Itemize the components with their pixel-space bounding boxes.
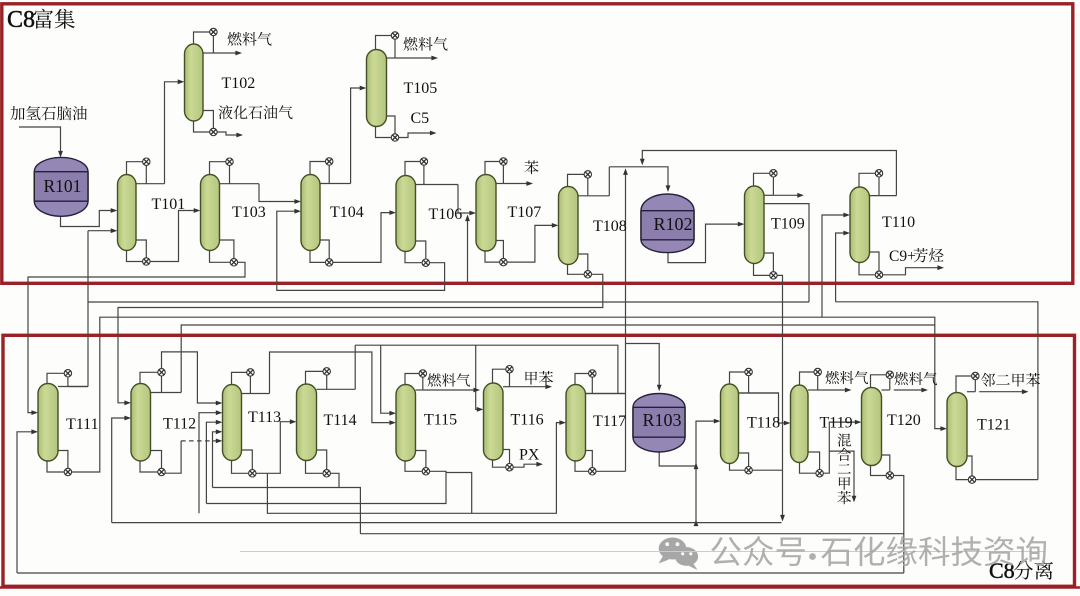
- wire T119 condenser hookup: [800, 372, 814, 385]
- wire T114 reboiler hookup: [306, 459, 323, 474]
- svg-text:T121: T121: [977, 417, 1011, 434]
- reboiler T117: [589, 468, 596, 475]
- reboiler T119: [816, 470, 823, 477]
- C8 enrichment section border (top red box): [2, 4, 1073, 284]
- reboiler T106: [422, 259, 429, 266]
- wire T106 condenser hookup: [405, 162, 420, 176]
- wire T117 condenser hookup: [575, 374, 588, 385]
- condenser T119: [814, 368, 821, 375]
- reboiler T102: [210, 128, 217, 135]
- svg-text:T115: T115: [424, 412, 457, 429]
- wire T110 condenser hookup: [859, 173, 875, 187]
- wire T107 bottoms to T108 feed: [507, 225, 555, 262]
- wire T112 bottoms to dashed T113 feed E riser: [165, 441, 181, 473]
- column T120: [862, 388, 882, 466]
- column T109: [745, 186, 765, 264]
- wire T109 reboiler hookup: [754, 262, 770, 276]
- watermark text: [711, 536, 1046, 566]
- wire T118 condenser hookup: [730, 372, 745, 384]
- condenser T106: [420, 158, 427, 165]
- reboiler T110: [875, 271, 882, 278]
- wire T111 reboiler hookup: [47, 459, 64, 472]
- reboiler T103: [230, 259, 237, 266]
- column T104: [301, 175, 320, 251]
- svg-text:C8: C8: [7, 7, 35, 33]
- wire T121 reboiler hookup: [956, 465, 968, 480]
- label section title C8 enrichment: [7, 7, 75, 33]
- wire T107 reboiler hookup: [485, 249, 500, 262]
- svg-text:T108: T108: [593, 218, 627, 235]
- condenser T121: [972, 372, 979, 379]
- svg-text:T109: T109: [771, 216, 805, 233]
- wire T119 bottoms to T120 feed: [824, 422, 859, 473]
- condenser T120: [886, 371, 893, 378]
- column T105: [367, 50, 387, 127]
- wire T105 reboiler hookup: [376, 125, 392, 138]
- wire T118 overhead to T119 feed: [739, 393, 788, 423]
- column T111: [38, 384, 58, 462]
- column T118: [721, 384, 739, 464]
- reboiler T107: [500, 258, 507, 265]
- column T117: [566, 385, 586, 462]
- wire T108 condenser hookup: [568, 174, 584, 186]
- condenser T113: [247, 369, 254, 376]
- wire T113 feed C from T115 bottoms: [206, 422, 219, 503]
- wire T110 reboiler hookup: [859, 261, 875, 275]
- wire T116 PX bottoms product: [513, 464, 539, 467]
- condenser T110: [875, 170, 882, 177]
- wire T109 condenser hookup: [754, 173, 770, 186]
- wire T120 condenser hookup: [871, 375, 886, 388]
- wire T103 condenser hookup: [210, 162, 226, 175]
- column T102: [185, 44, 204, 121]
- condenser T116: [506, 366, 513, 373]
- wire T111 condenser hookup: [47, 373, 64, 383]
- wire T101 bottoms to T103 feed: [150, 211, 197, 262]
- condenser T104: [326, 158, 333, 165]
- watermark faint underline: [240, 551, 1045, 553]
- wire T112 feed 2 from bottom bus BL1: [112, 418, 128, 523]
- column T119: [791, 385, 809, 463]
- label fuel gas T115: [428, 373, 471, 386]
- wire T101 feed 2 riser (from T111 overhead): [88, 230, 114, 232]
- wire T117 reboiler hookup: [575, 459, 588, 471]
- wire T105 C5 bottoms product: [399, 133, 433, 138]
- wire T112 reboiler hookup: [140, 459, 158, 472]
- reboiler T108: [584, 271, 591, 278]
- label fuel gas T102: [228, 32, 272, 46]
- reboiler T114: [323, 470, 330, 477]
- wire riser from separation section to R102 header: [625, 171, 627, 344]
- column T107: [476, 175, 496, 252]
- label hydrotreated naphtha: [10, 106, 86, 120]
- condenser T117: [589, 370, 596, 377]
- wire T107 benzene product: [503, 183, 529, 185]
- column T110: [850, 187, 870, 263]
- wire R102 vertical to R103 feed: [626, 344, 660, 389]
- wire T120 reboiler hookup: [871, 464, 886, 476]
- wire T110 overhead recycle to R102 header: [642, 151, 896, 196]
- wire long vertical to T117 reboiler zone: [625, 344, 627, 472]
- wire T101 overhead to T102 feed: [165, 82, 182, 184]
- svg-text:R101: R101: [44, 176, 82, 196]
- wire T112 overhead branch to T113 feed A: [162, 352, 220, 403]
- wire T106 overhead to T107 feed: [458, 185, 473, 214]
- wire T121 bottoms to L6 riser: [976, 479, 1038, 481]
- wire T109 overhead product: [773, 194, 800, 196]
- wire T109 side draw to mid bus L1: [764, 204, 809, 302]
- condenser T111: [64, 370, 71, 377]
- wire T108 reboiler hookup: [568, 263, 584, 275]
- reboiler T116: [506, 464, 513, 471]
- label o-xylene: [981, 373, 1040, 387]
- wire T114 bottoms to T113 feed D and BL2: [213, 473, 340, 487]
- reboiler T111: [64, 468, 71, 475]
- reactor R101: [34, 157, 88, 216]
- reboiler T113: [249, 470, 256, 477]
- condenser T101: [143, 158, 150, 165]
- watermark wechat icon: [659, 538, 699, 571]
- svg-text:C5: C5: [411, 110, 430, 127]
- condenser T118: [745, 368, 752, 375]
- wire R101 bottoms to T101 feed 1: [61, 211, 115, 227]
- reactor R103: [633, 393, 685, 452]
- condenser T108: [584, 171, 591, 178]
- wire T119 reboiler hookup: [800, 461, 816, 474]
- wire T113 bottoms to T114 feed: [256, 422, 293, 474]
- svg-text:T105: T105: [404, 80, 438, 97]
- wire T116 condenser hookup: [493, 369, 506, 383]
- wire T103 overhead to T104 feed 1: [259, 184, 298, 202]
- wire bottom bus BL2: [360, 533, 903, 535]
- column T106: [396, 176, 416, 252]
- wire T113 feed E dashed: [181, 440, 219, 442]
- label section title C8 separation: [989, 558, 1053, 583]
- svg-text:T120: T120: [887, 412, 921, 429]
- condenser T109: [770, 170, 777, 177]
- svg-text:T117: T117: [593, 413, 626, 430]
- condenser T103: [226, 158, 233, 165]
- condenser T105: [391, 32, 398, 39]
- wire T102 LPG bottoms product: [217, 132, 239, 135]
- reactor R102: [641, 194, 694, 253]
- wire T121 o-xylene product: [979, 391, 1025, 393]
- label LPG: [219, 105, 293, 119]
- wire T106 reboiler hookup: [405, 250, 422, 263]
- wire T115 bottoms to T113 feed C line: [206, 471, 446, 503]
- svg-text:T111: T111: [66, 416, 99, 433]
- wire T103 reboiler hookup: [210, 249, 231, 263]
- wire T113 feed B: [199, 413, 219, 514]
- wire T117 overhead to long vertical: [586, 393, 626, 395]
- wire T104 condenser hookup: [310, 162, 325, 175]
- wire T102 condenser hookup: [194, 32, 210, 44]
- reboiler T101: [143, 258, 150, 265]
- wire overhead header T114/T117 to T116 feed: [355, 345, 618, 393]
- wire T110 feed 1 from L3 bus: [822, 215, 847, 317]
- wire bus L4 T112 overhead eastwards: [181, 325, 935, 393]
- wire T107 condenser hookup: [485, 162, 500, 175]
- wire T113 bottoms branch to T117 feed: [267, 423, 562, 514]
- svg-text:R102: R102: [654, 214, 693, 234]
- wire T106 bottoms recycle to T104 feed 2: [277, 211, 445, 290]
- condenser T114: [323, 368, 330, 375]
- reboiler T121: [968, 476, 975, 483]
- wire T102 reboiler hookup: [194, 119, 210, 132]
- wire T101 condenser hookup: [127, 162, 143, 175]
- wire T115 condenser hookup: [405, 374, 419, 385]
- column T121: [947, 393, 967, 467]
- label benzene: [525, 160, 539, 174]
- wire T110 feed 2 from T121 bottoms: [836, 233, 847, 302]
- reboiler T115: [422, 468, 429, 475]
- wire R102 feed header: [609, 167, 668, 189]
- wire T114 overhead riser to header: [354, 345, 356, 389]
- wire T109 bottoms down to xylene section: [777, 275, 782, 518]
- column T108: [559, 187, 579, 265]
- reboiler T105: [391, 134, 398, 141]
- wire T111 overhead to T101 riser: [68, 386, 88, 388]
- svg-text:T116: T116: [511, 412, 544, 429]
- wire T121 bottoms riser L6: [836, 302, 1038, 480]
- svg-text:T110: T110: [882, 214, 915, 231]
- wire R103 bottoms to T118 feed: [659, 450, 696, 466]
- wire T115 bottoms branch to T117 feed junction: [446, 473, 472, 514]
- wire bottom bus BL1: [112, 522, 782, 524]
- wire T121 condenser hookup: [956, 376, 971, 393]
- svg-text:C9+: C9+: [889, 248, 916, 265]
- svg-text:T118: T118: [747, 415, 780, 432]
- column T101: [118, 175, 137, 251]
- svg-text:T112: T112: [163, 416, 196, 433]
- reboiler T104: [326, 259, 333, 266]
- svg-text:T101: T101: [152, 196, 186, 213]
- wire riser from separation section joining T107 feed: [467, 217, 469, 284]
- condenser T102: [210, 28, 217, 35]
- wire T117 bottoms to long vertical: [596, 470, 625, 472]
- wire T104 bottoms to T106 feed: [333, 213, 393, 263]
- wire T104 overhead to T105 feed: [351, 88, 364, 184]
- label fuel gas T119: [826, 371, 869, 384]
- wire T113 reboiler hookup: [232, 459, 249, 474]
- C8 separation section border (bottom red box): [3, 335, 1075, 586]
- label fuel gas T120: [895, 372, 938, 385]
- label toluene: [525, 371, 553, 385]
- wire R102 bottoms to T109 feed: [668, 224, 741, 263]
- reboiler T112: [158, 468, 165, 475]
- column T114: [297, 384, 317, 461]
- reboiler T120: [886, 472, 893, 479]
- svg-text:T102: T102: [222, 75, 256, 92]
- wire T108 overhead riser to R102 feed header: [608, 167, 610, 196]
- wire T103 bottoms to T111 feed 1: [28, 262, 245, 412]
- wire T101 reboiler hookup: [127, 249, 143, 262]
- column T112: [131, 384, 151, 462]
- wire T105 fuel gas product: [395, 57, 435, 59]
- wire T118 reboiler hookup: [730, 462, 745, 471]
- label fuel gas T105: [404, 37, 448, 51]
- svg-text:T106: T106: [429, 206, 463, 223]
- reboiler T109: [770, 272, 777, 279]
- wire T113 feed D from T114 bottoms line: [213, 432, 220, 488]
- condenser T107: [500, 158, 507, 165]
- svg-text:R103: R103: [643, 410, 682, 430]
- wire T119 fuel gas product: [818, 389, 848, 391]
- wire T102 fuel gas product: [213, 52, 238, 54]
- svg-text:PX: PX: [519, 447, 540, 464]
- wire T120 bottoms to BL3: [894, 476, 904, 574]
- wire bottom bus BL3: [17, 572, 904, 574]
- wire T110 C9+ aromatics product: [883, 268, 941, 275]
- wire bus L3 T111 bottoms to T110/T121: [72, 317, 944, 472]
- wire T115 fuel gas product: [423, 389, 477, 391]
- svg-text:T113: T113: [248, 409, 281, 426]
- column T113: [223, 385, 242, 461]
- wire T116 toluene product: [510, 386, 549, 388]
- wire bus L2 T108 bottoms to T112 feed 1: [118, 274, 603, 403]
- svg-text:T119: T119: [820, 415, 853, 432]
- label mixed xylenes (vertical): [838, 434, 851, 447]
- svg-text:T104: T104: [330, 204, 364, 221]
- wire T113 condenser hookup: [232, 372, 247, 384]
- column T103: [201, 175, 220, 251]
- svg-text:T107: T107: [508, 204, 542, 221]
- wire hydrotreated naphtha feed line: [19, 127, 61, 154]
- wire T112 condenser hookup: [140, 372, 158, 383]
- svg-text:T114: T114: [324, 412, 357, 429]
- wire mixed xylene product down arrow: [829, 451, 854, 499]
- wire T115 reboiler hookup: [405, 459, 422, 471]
- wire T120 fuel gas product: [894, 389, 925, 391]
- wire T113 overhead to T115 feed 2: [270, 352, 393, 423]
- column T115: [396, 385, 416, 462]
- wire T111 feed 2 from bottom bus BL3: [17, 432, 35, 573]
- wire T104 reboiler hookup: [310, 249, 325, 263]
- wire bus L1 (to T101 feed 2): [88, 301, 809, 303]
- wire T118 reboiler to BL1 drop: [753, 469, 783, 471]
- wire T105 condenser hookup: [376, 36, 392, 50]
- column T116: [484, 383, 504, 460]
- wire T114 condenser hookup: [306, 371, 323, 384]
- reboiler T118: [745, 467, 752, 474]
- wire T116 reboiler hookup: [493, 458, 506, 467]
- condenser T115: [419, 370, 426, 377]
- svg-text:T103: T103: [232, 204, 266, 221]
- condenser T112: [158, 369, 165, 376]
